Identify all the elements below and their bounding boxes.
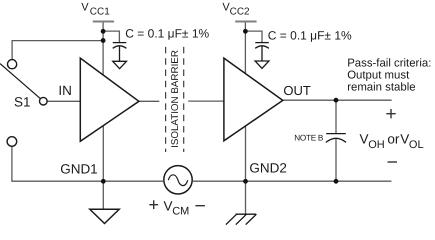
svg-text:OL: OL	[409, 139, 424, 151]
svg-text:V: V	[360, 132, 369, 147]
svg-text:NOTE B: NOTE B	[294, 133, 324, 142]
svg-text:OUT: OUT	[283, 83, 311, 98]
svg-text:GND2: GND2	[249, 161, 287, 176]
svg-text:IN: IN	[58, 83, 72, 98]
svg-text:V: V	[81, 1, 89, 13]
svg-text:Output must: Output must	[347, 70, 410, 82]
svg-text:CC2: CC2	[230, 7, 250, 18]
svg-text:CC1: CC1	[90, 7, 110, 18]
svg-text:remain stable: remain stable	[347, 82, 415, 94]
svg-text:V: V	[400, 132, 409, 147]
svg-text:GND1: GND1	[60, 162, 98, 177]
svg-text:S1: S1	[14, 95, 31, 110]
svg-text:Pass-fail criteria:: Pass-fail criteria:	[347, 58, 431, 70]
svg-text:CM: CM	[172, 206, 189, 218]
svg-text:C = 0.1 μF± 1%: C = 0.1 μF± 1%	[268, 28, 352, 42]
svg-text:ISOLATION BARRIER: ISOLATION BARRIER	[170, 50, 181, 148]
svg-text:OH: OH	[368, 139, 385, 151]
svg-text:V: V	[164, 198, 173, 213]
svg-text:or: or	[387, 132, 400, 147]
svg-text:C = 0.1 μF± 1%: C = 0.1 μF± 1%	[125, 27, 209, 41]
